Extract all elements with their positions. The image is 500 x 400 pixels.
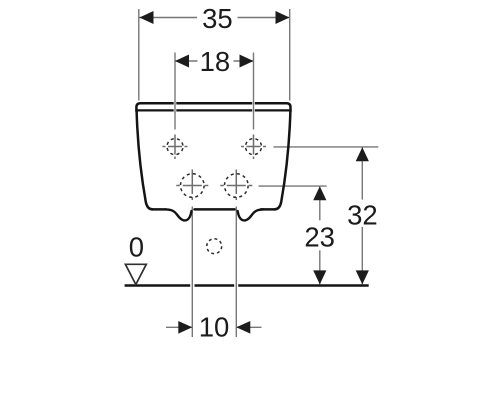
svg-text:18: 18	[200, 46, 231, 77]
svg-text:10: 10	[199, 311, 230, 342]
svg-text:35: 35	[202, 3, 233, 34]
svg-text:0: 0	[129, 231, 144, 262]
svg-text:32: 32	[347, 199, 378, 230]
svg-text:23: 23	[304, 221, 335, 252]
